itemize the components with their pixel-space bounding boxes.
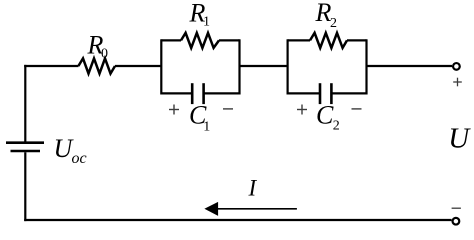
wire: C1 bottom edge left lead — [161, 92, 192, 94]
wire: left vertical lower segment — [24, 152, 26, 221]
node: negative terminal — [453, 218, 460, 225]
label plus sign at terminal — [453, 78, 462, 87]
svg-text:1: 1 — [203, 119, 210, 134]
label minus sign at terminal — [452, 207, 461, 209]
label C2 plus sign — [297, 105, 307, 115]
node: R2C2 block left edge — [287, 39, 289, 94]
svg-text:2: 2 — [333, 118, 340, 133]
battery Uoc bottom plate — [11, 150, 41, 153]
node: positive terminal — [453, 63, 460, 70]
svg-text:U: U — [448, 122, 471, 154]
wire: C2 bottom edge left lead — [288, 92, 320, 94]
wire: R2C2 block to positive terminal — [367, 65, 453, 67]
current arrow I head — [204, 202, 218, 216]
wire: R2 top edge right lead — [347, 39, 367, 41]
wire: R0 to R1C1 block — [115, 65, 162, 67]
capacitor C1 — [191, 83, 194, 104]
current arrow I line — [215, 208, 297, 210]
wire: R1 top edge left lead — [161, 39, 181, 41]
node: R1C1 block right edge — [238, 39, 240, 94]
label C2 minus sign — [352, 108, 362, 110]
resistor R1 — [181, 33, 219, 48]
node: R1C1 block left edge — [160, 39, 162, 94]
capacitor C2 — [319, 83, 322, 104]
wire: bottom horizontal — [24, 219, 451, 221]
wire: R1C1 block to R2C2 block — [240, 65, 289, 67]
svg-text:1: 1 — [203, 15, 210, 30]
battery Uoc top plate — [6, 141, 44, 144]
label C1 minus sign — [223, 108, 233, 110]
svg-text:R: R — [315, 0, 332, 27]
svg-text:2: 2 — [330, 16, 337, 31]
label C1 plus sign — [169, 105, 179, 115]
wire: C1 bottom edge right lead — [204, 92, 240, 94]
resistor R2 — [310, 33, 347, 48]
svg-text:oc: oc — [72, 150, 87, 167]
wire: left vertical upper segment — [24, 65, 26, 142]
svg-text:I: I — [248, 176, 258, 201]
svg-text:0: 0 — [101, 47, 108, 62]
wire: R2 top edge left lead — [288, 39, 310, 41]
svg-text:C: C — [316, 100, 334, 129]
wire: top horizontal, battery to R0 — [24, 65, 78, 67]
node: R2C2 block right edge — [365, 39, 367, 94]
wire: R1 top edge right lead — [219, 39, 240, 41]
resistor R0 — [78, 58, 115, 73]
wire: C2 bottom edge right lead — [331, 92, 366, 94]
